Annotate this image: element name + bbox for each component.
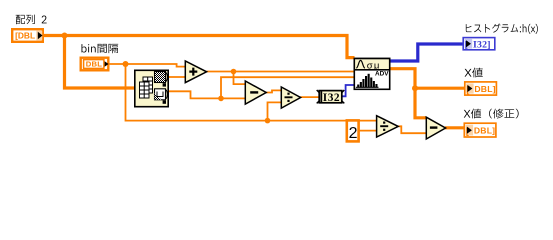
- junction on min wire: [218, 96, 224, 102]
- svg-text:[DBL: [DBL: [15, 31, 35, 41]
- Divide2 node: [377, 116, 399, 137]
- Add node: [185, 61, 206, 83]
- wire: Subtract2 out to X値(修正) indicator: [445, 126, 465, 129]
- junction on X values wire: [412, 85, 418, 91]
- label bin間隔: [81, 44, 118, 53]
- label 配列 2: [16, 15, 47, 25]
- I32 To-Long-Integer conversion node: [317, 90, 345, 104]
- Array Max & Min node: [135, 70, 168, 106]
- indicator X値（修正） [DBL]: [464, 123, 496, 137]
- junction on Add output: [231, 69, 237, 75]
- wire: min branch up to Histogram input: [221, 77, 355, 98]
- label X値（修正）: [464, 109, 519, 119]
- wire: Add output to Histogram input: [207, 71, 355, 73]
- wire: Divide2 out to Subtract2 y input: [399, 126, 427, 133]
- wire: Add output branch down to Subtract x input: [234, 72, 247, 85]
- Histogram.vi node (ADV): [354, 59, 389, 90]
- wire: Subtract out to Divide x input: [266, 90, 283, 92]
- Subtract node: [245, 81, 266, 104]
- wire: constant 2 to Divide2 y input: [359, 130, 377, 132]
- junction on bottom rail: [265, 118, 271, 124]
- svg-text:DBL]: DBL]: [474, 125, 495, 135]
- wire: bin間隔 branch down bottom rail to Divide2 x input: [126, 64, 378, 121]
- indicator X値 [DBL]: [465, 82, 497, 95]
- wire: X values branch to X値 indicator: [415, 87, 465, 90]
- indicator ヒストグラム:h(x) [I32]: [463, 38, 495, 51]
- wire: ArrayMin out to Subtract y input: [169, 91, 247, 98]
- junction on 配列2 wire: [62, 33, 68, 39]
- wire: ArrayMax out to Add y input: [169, 76, 187, 78]
- label ヒストグラム:h(x): [466, 23, 538, 33]
- Subtract2 node: [426, 117, 445, 139]
- svg-text:DBL]: DBL]: [474, 84, 495, 94]
- wire: 配列2 branch down to Array Max&Min input: [65, 36, 136, 89]
- svg-text:DBL: DBL: [86, 60, 103, 69]
- svg-text:ADV: ADV: [375, 70, 389, 77]
- wire: Histogram X values output down to Subtract2 x input: [390, 69, 426, 118]
- svg-text:I32: I32: [323, 92, 340, 104]
- junction on bin間隔 wire: [123, 61, 129, 67]
- numeric constant 2: [347, 120, 359, 142]
- wire: bin間隔 to Add x input: [110, 64, 187, 67]
- wire: bottom rail branch up to Divide y input: [268, 102, 283, 120]
- Divide node: [281, 87, 300, 108]
- wire: I32 conversion to Histogram (blue int): [342, 85, 355, 96]
- wire: Divide out to I32 conversion: [300, 96, 320, 98]
- label X値: [465, 68, 483, 78]
- svg-text:2: 2: [349, 125, 358, 142]
- svg-text:I32]: I32]: [473, 39, 491, 50]
- wire: Histogram h(x) int array to indicator: [390, 44, 463, 61]
- wire: array 配列2 to Histogram X input: [44, 36, 355, 58]
- control terminal bin間隔 DBL: [81, 58, 109, 71]
- control terminal 配列2 [DBL] array: [12, 29, 43, 42]
